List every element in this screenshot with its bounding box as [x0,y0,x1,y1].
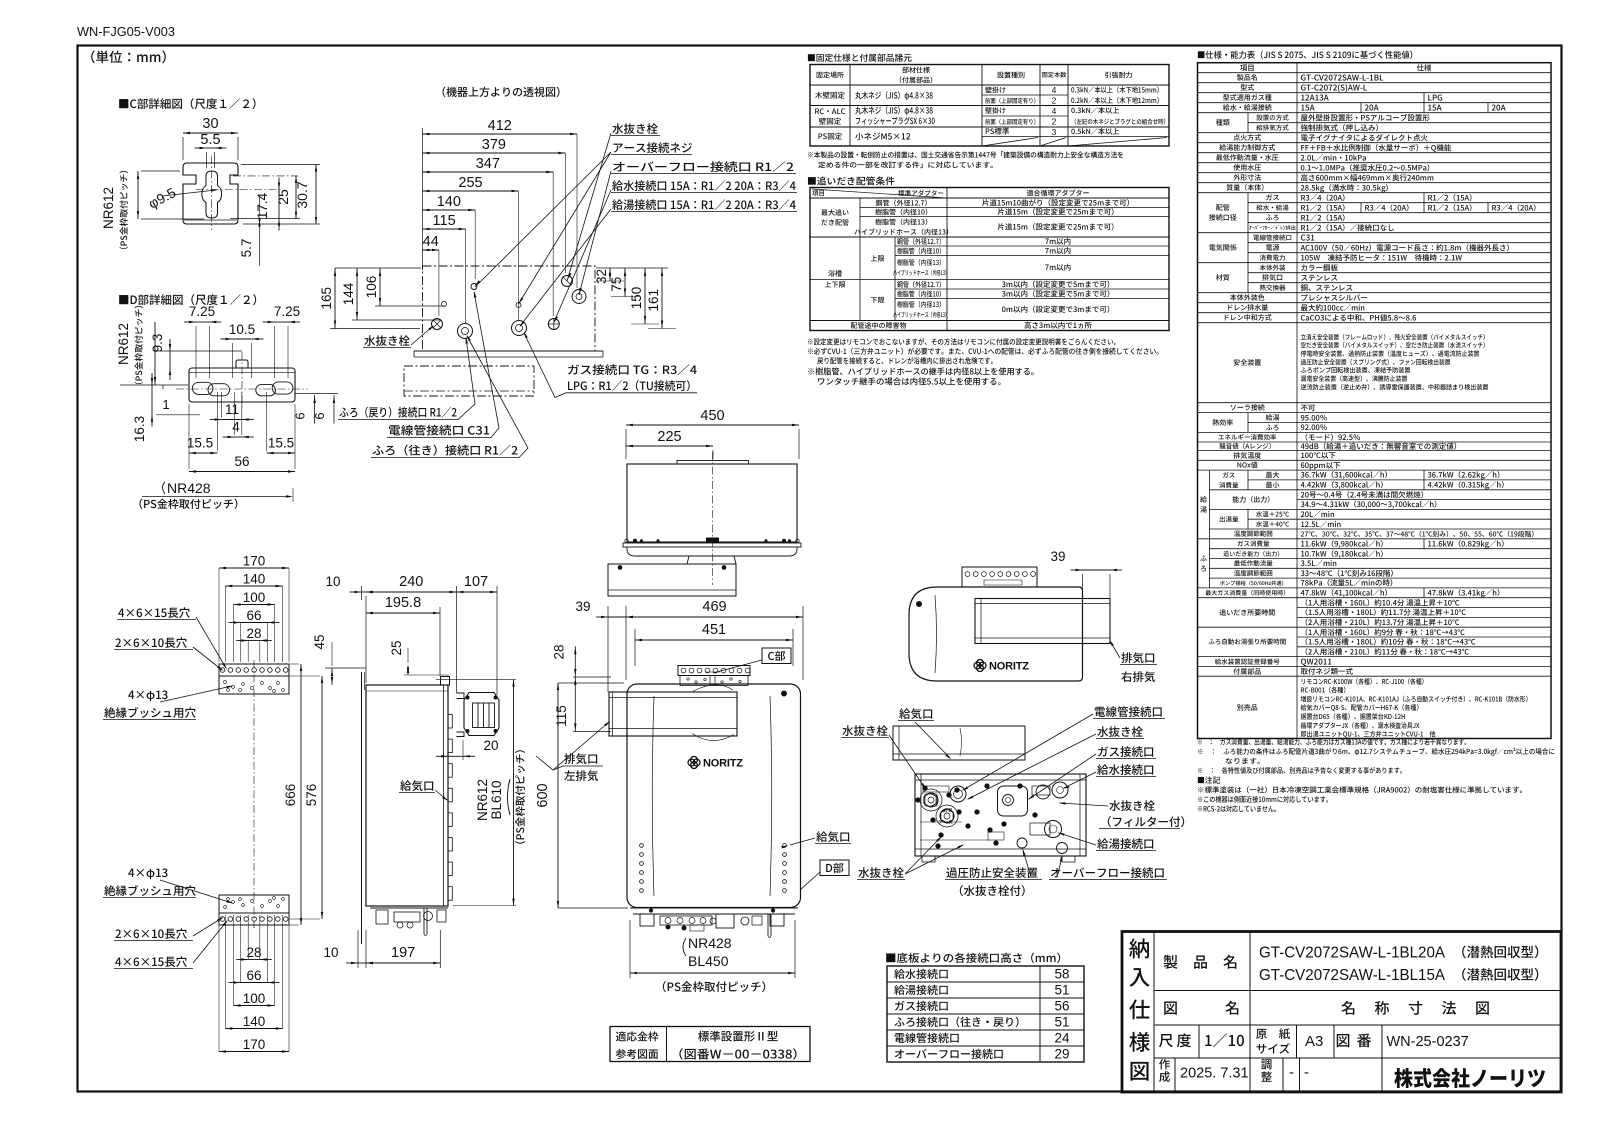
svg-text:水抜き栓: 水抜き栓 [842,723,888,739]
svg-text:オーバーフロー接続口: オーバーフロー接続口 [894,1046,1004,1062]
svg-text:小ネジM5×12: 小ネジM5×12 [855,131,911,143]
svg-text:197: 197 [391,945,415,961]
svg-text:195.8: 195.8 [385,595,421,611]
svg-text:0.3kN／本以上（木下地15mm）: 0.3kN／本以上（木下地15mm） [1071,86,1163,96]
svg-text:給水・給湯: 給水・給湯 [1256,202,1289,212]
svg-text:製品名: 製品名 [1237,73,1258,83]
svg-text:15.5: 15.5 [268,436,294,451]
svg-text:点火方式: 点火方式 [1233,133,1261,143]
svg-text:型式: 型式 [1240,83,1254,93]
svg-text:フィッシャープラグSX 6×30: フィッシャープラグSX 6×30 [855,115,935,127]
svg-text:170: 170 [243,1037,266,1052]
svg-text:■C部詳細図（尺度１／２）: ■C部詳細図（尺度１／２） [118,96,263,112]
svg-text:給湯能力制御方式: 給湯能力制御方式 [1219,143,1275,153]
svg-text:（単位：mm）: （単位：mm） [82,46,175,66]
svg-text:6: 6 [293,412,308,419]
svg-text:3: 3 [1052,127,1057,137]
svg-text:NR612: NR612 [116,323,131,365]
svg-text:なります。: なります。 [1225,757,1265,767]
svg-text:オーバーフロー接続口 R1／2: オーバーフロー接続口 R1／2 [612,159,794,175]
svg-text:参考図面: 参考図面 [616,1046,659,1062]
svg-text:58: 58 [1054,967,1069,982]
svg-text:だき配管: だき配管 [821,218,849,228]
svg-text:配管: 配管 [1216,203,1230,213]
svg-text:図: 図 [1336,1030,1351,1051]
svg-text:7.25: 7.25 [274,304,300,319]
svg-text:25: 25 [275,189,291,205]
svg-text:25: 25 [389,640,404,655]
svg-text:鋼管（外径12.7）: 鋼管（外径12.7） [897,280,945,290]
svg-text:引張耐力: 引張耐力 [1105,70,1133,80]
svg-text:2: 2 [1052,95,1057,105]
svg-text:水抜き栓: 水抜き栓 [612,121,658,137]
svg-text:給水装置認証登録番号: 給水装置認証登録番号 [1215,656,1281,666]
svg-text:給気口: 給気口 [400,778,435,794]
svg-text:オーバーフロー接続口: オーバーフロー接続口 [1050,865,1165,881]
svg-text:4×φ13: 4×φ13 [128,865,168,881]
svg-text:給湯接続口 15A：R1／2 20A：R3／4: 給湯接続口 15A：R1／2 20A：R3／4 [612,197,796,213]
svg-text:使用水圧: 使用水圧 [1233,163,1261,173]
svg-text:水温＋40℃: 水温＋40℃ [1256,518,1290,528]
svg-text:高さ3m以内で1ヵ所: 高さ3m以内で1ヵ所 [1024,320,1093,331]
svg-text:固定本数: 固定本数 [1042,70,1068,79]
svg-text:15.5: 15.5 [187,436,213,451]
svg-text:ポンプ揚程（50/60Hz共通）: ポンプ揚程（50/60Hz共通） [1220,580,1287,587]
svg-text:絶縁ブッシュ用穴: 絶縁ブッシュ用穴 [104,883,196,899]
svg-text:4×φ13: 4×φ13 [128,687,168,703]
svg-text:A3: A3 [1305,1033,1323,1050]
svg-text:図: 図 [1475,998,1490,1019]
svg-text:外形寸法: 外形寸法 [1233,173,1261,183]
svg-text:30.7: 30.7 [294,181,310,208]
svg-text:（PS金枠取付ピッチ）: （PS金枠取付ピッチ） [513,743,528,851]
svg-text:度: 度 [1177,1030,1192,1051]
svg-text:39: 39 [1050,549,1065,564]
svg-text:ガス接続口 TG：R3／4: ガス接続口 TG：R3／4 [567,362,697,378]
svg-text:28: 28 [552,644,567,659]
svg-text:NR612: NR612 [475,779,490,821]
svg-text:225: 225 [657,429,681,445]
svg-text:電線管接続口: 電線管接続口 [1094,704,1163,720]
svg-text:4×6×15長穴: 4×6×15長穴 [115,954,188,970]
svg-text:GT-CV2072SAW-L-1BL20A: GT-CV2072SAW-L-1BL20A [1259,945,1445,962]
svg-text:100: 100 [243,991,266,1006]
svg-text:ｵｰﾊﾞｰﾌﾛｰ／ﾄﾞﾚﾝ排出: ｵｰﾊﾞｰﾌﾛｰ／ﾄﾞﾚﾝ排出 [1249,225,1296,232]
svg-text:※本製品の設置・転倒防止の措置は、国土交通省告示第1447号: ※本製品の設置・転倒防止の措置は、国土交通省告示第1447号「建築設備の構造耐力… [807,151,1124,161]
svg-text:安全装置: 安全装置 [1233,358,1261,368]
svg-text:30: 30 [202,116,218,132]
svg-text:標準アダプター: 標準アダプター [898,188,944,198]
svg-text:消費量: 消費量 [1219,479,1239,489]
svg-text:給水接続口 15A：R1／2 20A：R3／4: 給水接続口 15A：R1／2 20A：R3／4 [612,178,796,194]
svg-text:-: - [1304,1064,1309,1081]
svg-text:C部: C部 [767,648,785,664]
svg-text:7m以内: 7m以内 [1045,262,1071,273]
svg-text:最大ガス消費量（同時使用時）: 最大ガス消費量（同時使用時） [1205,588,1289,597]
svg-text:ハイブリッドホース（内径13）: ハイブリッドホース（内径13） [893,310,949,319]
svg-text:BL450: BL450 [688,953,729,969]
svg-text:150: 150 [629,287,644,310]
svg-text:NR428: NR428 [688,935,732,951]
svg-text:666: 666 [283,784,298,807]
svg-text:107: 107 [464,574,488,590]
svg-text:450: 450 [700,408,724,424]
svg-text:壁掛け: 壁掛け [985,106,1006,116]
svg-text:28: 28 [246,945,261,960]
svg-text:4: 4 [1052,106,1057,116]
svg-text:24: 24 [1054,1031,1070,1046]
svg-text:ガス: ガス [943,807,953,814]
svg-text:165: 165 [319,287,334,310]
svg-text:樹脂管（内径13）: 樹脂管（内径13） [897,300,945,310]
svg-text:（左記の木ネジとプラグとの組合せ時）: （左記の木ネジとプラグとの組合せ時） [1071,117,1169,126]
svg-text:4: 4 [232,420,240,435]
svg-text:絶縁ブッシュ用穴: 絶縁ブッシュ用穴 [104,705,196,721]
svg-text:115: 115 [433,213,456,229]
svg-text:給気口: 給気口 [816,829,851,845]
svg-text:51: 51 [1054,983,1069,998]
svg-text:出湯量: 出湯量 [1219,514,1239,524]
svg-text:■注記: ■注記 [1197,775,1221,786]
svg-text:※ ： ふろ能力の条件はふろ配管片道3曲がり6m、φ12.7: ※ ： ふろ能力の条件はふろ配管片道3曲がり6m、φ12.7システムチューブ、給… [1197,747,1555,757]
svg-text:（潜熱回収型）: （潜熱回収型） [1453,964,1548,984]
svg-text:ふろ接続口（往き・戻り）: ふろ接続口（往き・戻り） [894,1014,1026,1030]
svg-text:電線管接続口 C31: 電線管接続口 C31 [388,423,490,439]
svg-text:ハイブリッドホース（内径13）: ハイブリッドホース（内径13） [893,268,949,277]
svg-text:66: 66 [246,608,261,623]
svg-text:最低作動流量・水圧: 最低作動流量・水圧 [1216,153,1279,163]
svg-text:φ9.5: φ9.5 [146,184,179,212]
svg-text:-: - [1289,1064,1294,1081]
svg-text:左排気: 左排気 [564,768,599,784]
svg-text:騒音値（Aレンジ）: 騒音値（Aレンジ） [1219,441,1275,451]
svg-text:WN-FJG05-V003: WN-FJG05-V003 [77,24,175,39]
svg-text:（付属部品）: （付属部品） [895,75,937,85]
svg-text:140: 140 [243,1014,266,1029]
svg-text:湯: 湯 [1200,505,1207,515]
svg-text:56: 56 [1054,999,1069,1014]
svg-text:（PS金枠取付ピッチ）: （PS金枠取付ピッチ） [132,496,245,512]
svg-text:600: 600 [535,783,551,807]
svg-text:熱効率: 熱効率 [1212,418,1233,428]
svg-text:BL610: BL610 [489,780,504,819]
svg-text:成: 成 [1159,1069,1171,1085]
svg-text:ドレン排水量: ドレン排水量 [1226,303,1268,313]
svg-text:NORITZ: NORITZ [989,661,1029,673]
svg-text:温度調節範囲: 温度調節範囲 [1234,528,1273,538]
svg-text:電線管接続口: 電線管接続口 [894,1030,960,1046]
svg-text:図: 図 [1163,998,1178,1019]
svg-text:ふろ自動お湯張り所要時間: ふろ自動お湯張り所要時間 [1208,636,1286,646]
svg-text:GT-CV2072SAW-L-1BL15A: GT-CV2072SAW-L-1BL15A [1259,967,1445,984]
svg-text:給湯接続口: 給湯接続口 [1097,836,1155,852]
svg-text:電気関係: 電気関係 [1209,243,1237,253]
svg-text:379: 379 [482,137,506,153]
svg-text:（PS金枠取付ピッチ）: （PS金枠取付ピッチ） [132,300,145,390]
svg-text:項目: 項目 [812,188,825,198]
svg-text:5.5: 5.5 [200,132,220,148]
svg-text:ガス: ガス [1222,469,1235,479]
svg-text:4×6×15長穴: 4×6×15長穴 [118,605,191,621]
svg-text:質量（本体）: 質量（本体） [1226,183,1268,193]
svg-text:CaCO3による中和、PH値5.8～8.6: CaCO3による中和、PH値5.8～8.6 [1301,312,1417,323]
svg-text:（潜熱回収型）: （潜熱回収型） [1453,941,1548,961]
svg-text:170: 170 [243,554,266,569]
svg-text:壁固定: 壁固定 [819,116,842,127]
svg-text:■底板よりの各接続口高さ（mm）: ■底板よりの各接続口高さ（mm） [885,950,1068,966]
svg-text:丸木ネジ（JIS）φ4.8×38: 丸木ネジ（JIS）φ4.8×38 [855,89,933,101]
svg-text:ワンタッチ継手の場合は内径5.5以上を使用する。: ワンタッチ継手の場合は内径5.5以上を使用する。 [817,376,1006,388]
svg-text:設置種別: 設置種別 [997,70,1025,80]
svg-text:0.2kN／本以上（木下地12mm）: 0.2kN／本以上（木下地12mm） [1071,96,1163,106]
svg-text:66: 66 [246,968,261,983]
svg-text:排気温度: 排気温度 [1233,451,1261,461]
svg-text:ふろ（戻り）接続口 R1／2: ふろ（戻り）接続口 R1／2 [339,405,457,421]
svg-text:469: 469 [702,599,726,615]
svg-text:R1／2（15A）: R1／2（15A） [1428,202,1477,213]
svg-text:140: 140 [437,194,461,210]
svg-text:木壁固定: 木壁固定 [815,90,845,101]
svg-text:28: 28 [246,626,261,641]
svg-text:最小: 最小 [1266,480,1280,490]
svg-text:NR428: NR428 [167,480,211,496]
svg-text:16.3: 16.3 [132,416,147,442]
svg-text:称: 称 [1375,998,1390,1019]
svg-text:樹脂管（内径13）: 樹脂管（内径13） [897,258,945,268]
svg-text:0.5kN／本以上: 0.5kN／本以上 [1071,127,1120,137]
svg-text:逆流防止装置（逆止め弁）、誘導雷保護装置、中和器詰まり検出装: 逆流防止装置（逆止め弁）、誘導雷保護装置、中和器詰まり検出装置 [1301,381,1489,391]
svg-text:■固定仕様と付属部品諸元: ■固定仕様と付属部品諸元 [807,51,912,64]
svg-text:0m以内（設定変更で3mまで可）: 0m以内（設定変更で3mまで可） [1002,304,1115,315]
svg-text:※この機器は側面近接10mmに対応しています。: ※この機器は側面近接10mmに対応しています。 [1197,795,1332,805]
svg-text:27℃、30℃、32℃、35℃、37～48℃（1℃刻み）、5: 27℃、30℃、32℃、35℃、37～48℃（1℃刻み）、50、55、60℃（1… [1301,528,1539,538]
svg-text:412: 412 [488,118,512,134]
svg-text:451: 451 [702,622,726,638]
svg-text:前面（上部固定有り）: 前面（上部固定有り） [985,117,1039,126]
svg-text:上限: 上限 [871,254,885,264]
svg-text:10.5: 10.5 [229,322,255,337]
svg-text:7m以内: 7m以内 [1045,245,1071,256]
svg-text:1: 1 [162,397,169,412]
svg-text:水抜き栓: 水抜き栓 [1109,798,1155,814]
svg-text:※RCS-2は対応していません。: ※RCS-2は対応していません。 [1197,805,1280,815]
svg-text:設置の方式: 設置の方式 [1256,112,1289,122]
svg-text:ドレン中和方式: ドレン中和方式 [1223,313,1272,323]
svg-text:本体外装色: 本体外装色 [1230,293,1265,303]
svg-text:標準設置形Ⅱ型: 標準設置形Ⅱ型 [698,1029,779,1045]
svg-text:前面（上部固定有り）: 前面（上部固定有り） [985,96,1039,105]
svg-text:（PS金枠取付ピッチ）: （PS金枠取付ピッチ） [655,979,773,995]
svg-text:アース: アース [938,819,953,826]
svg-text:115: 115 [554,705,569,727]
svg-text:図: 図 [1129,1055,1151,1086]
svg-text:2025. 7.31: 2025. 7.31 [1180,1066,1249,1082]
svg-text:11: 11 [225,402,239,417]
svg-text:（PS金枠取付ピッチ）: （PS金枠取付ピッチ） [117,165,130,255]
svg-text:■仕様・能力表（JIS S 2075、JIS S 2109に: ■仕様・能力表（JIS S 2075、JIS S 2109に基づく性能値） [1197,49,1418,61]
svg-text:WN-25-0237: WN-25-0237 [1387,1034,1469,1050]
svg-text:本体外装: 本体外装 [1260,262,1287,272]
svg-text:44: 44 [423,234,439,250]
svg-text:347: 347 [476,156,500,172]
svg-text:温度調節範囲: 温度調節範囲 [1234,568,1273,578]
svg-text:部材仕様: 部材仕様 [902,65,930,75]
svg-text:※標準塗装は（一社）日本冷凍空調工業会標準規格（JRA900: ※標準塗装は（一社）日本冷凍空調工業会標準規格（JRA9002）の耐塩害仕様に準… [1197,786,1527,796]
svg-text:追いだき所要時間: 追いだき所要時間 [1219,608,1275,618]
svg-text:別売品: 別売品 [1237,703,1258,713]
svg-text:2×6×10長穴: 2×6×10長穴 [115,635,188,651]
svg-text:最大追い: 最大追い [821,208,849,218]
svg-text:仕様: 仕様 [1417,62,1433,73]
svg-text:給水接続口: 給水接続口 [894,966,949,982]
svg-text:161: 161 [646,289,661,312]
svg-text:定める件の一部を改訂する件」に対応しています。: 定める件の一部を改訂する件」に対応しています。 [818,161,998,171]
svg-text:5.7: 5.7 [239,239,254,258]
svg-text:ふろ（往き）接続口 R1／2: ふろ（往き）接続口 R1／2 [372,443,518,459]
svg-text:R3／4（20A）: R3／4（20A） [1492,202,1541,213]
svg-text:サイズ: サイズ [1256,1041,1291,1057]
svg-text:片道15m（設定変更で25mまで可）: 片道15m（設定変更で25mまで可） [997,221,1118,232]
svg-text:水抜き栓: 水抜き栓 [364,333,410,349]
svg-text:給湯: 給湯 [1266,413,1280,423]
svg-text:6: 6 [312,412,327,419]
svg-text:4.42kW（0.315kg／h）: 4.42kW（0.315kg／h） [1428,480,1509,491]
svg-text:11.6kW（0.829kg／h）: 11.6kW（0.829kg／h） [1428,538,1509,549]
svg-text:排気口: 排気口 [1121,650,1156,666]
svg-text:配管途中の障害物: 配管途中の障害物 [851,321,907,331]
svg-text:29: 29 [1054,1047,1069,1062]
svg-text:10: 10 [325,574,340,589]
svg-text:過圧防止安全装置: 過圧防止安全装置 [946,865,1038,881]
svg-text:0.3kN／本以上: 0.3kN／本以上 [1071,106,1120,116]
svg-text:ハイブリッドホース（内径13）: ハイブリッドホース（内径13） [854,227,953,237]
svg-text:仕: 仕 [1129,994,1151,1025]
svg-text:給水接続口: 給水接続口 [1097,762,1155,778]
svg-text:ガス接続口: ガス接続口 [1097,744,1155,760]
svg-text:材質: 材質 [1216,273,1230,283]
svg-text:追いだき能力（出力）: 追いだき能力（出力） [1223,549,1283,558]
svg-text:入: 入 [1129,961,1151,992]
svg-text:NOx値: NOx値 [1237,461,1258,471]
svg-text:整: 整 [1261,1069,1273,1085]
svg-text:樹脂管（内径10）: 樹脂管（内径10） [897,289,945,299]
svg-text:樹脂管（内径10）: 樹脂管（内径10） [875,208,932,218]
svg-text:法: 法 [1442,998,1457,1019]
svg-text:106: 106 [364,276,379,299]
svg-text:樹脂管（内径10）: 樹脂管（内径10） [897,246,945,256]
svg-text:20: 20 [483,738,498,753]
svg-text:熱交換器: 熱交換器 [1260,282,1287,292]
svg-text:壁掛け: 壁掛け [985,86,1006,96]
svg-text:電線管接続口: 電線管接続口 [1253,232,1292,242]
svg-text:PS固定: PS固定 [818,131,843,142]
svg-text:1／10: 1／10 [1204,1030,1245,1051]
svg-text:240: 240 [399,574,423,590]
svg-text:144: 144 [341,282,356,305]
svg-text:56: 56 [234,454,249,469]
svg-text:D部: D部 [825,860,844,876]
svg-text:ろ: ろ [1200,564,1207,574]
svg-text:最低作動流量: 最低作動流量 [1234,558,1274,568]
svg-text:45: 45 [312,634,327,649]
svg-text:アース接続ネジ: アース接続ネジ [612,140,693,156]
svg-text:（水抜き栓付）: （水抜き栓付） [952,883,1033,899]
svg-text:名: 名 [1341,998,1356,1019]
svg-text:給湯接続口: 給湯接続口 [894,982,949,998]
svg-text:種類: 種類 [1216,118,1230,128]
svg-text:尺: 尺 [1159,1030,1174,1051]
svg-text:51: 51 [1054,1015,1069,1030]
svg-text:上下限: 上下限 [825,280,846,290]
svg-text:75: 75 [609,277,624,292]
svg-text:片道15m（設定変更で25mまで可）: 片道15m（設定変更で25mまで可） [997,207,1118,218]
svg-text:最大: 最大 [1266,471,1280,481]
svg-text:ふ: ふ [1200,554,1207,564]
svg-text:100: 100 [243,590,266,605]
svg-text:原 紙: 原 紙 [1256,1026,1291,1042]
svg-text:水抜き栓: 水抜き栓 [858,865,904,881]
svg-text:樹脂管（内径13）: 樹脂管（内径13） [875,217,932,227]
svg-text:（図番W－00－0338）: （図番W－00－0338） [671,1046,806,1063]
svg-text:固定場所: 固定場所 [816,70,844,80]
svg-text:名: 名 [1225,998,1240,1019]
svg-text:給: 給 [1200,495,1207,505]
svg-text:3m以内（設定変更で5mまで可）: 3m以内（設定変更で5mまで可） [1002,288,1115,299]
svg-text:R3／4（20A）: R3／4（20A） [1365,202,1414,213]
svg-text:株式会社ノーリツ: 株式会社ノーリツ [1394,1063,1546,1093]
svg-text:ガス消費量: ガス消費量 [1237,538,1270,548]
svg-text:項目: 項目 [1240,62,1255,73]
svg-text:（フィルター付）: （フィルター付） [1100,814,1192,830]
svg-text:20A: 20A [1492,103,1506,114]
svg-text:製 品 名: 製 品 名 [1163,952,1238,973]
svg-text:右排気: 右排気 [1121,669,1156,685]
svg-text:ふろ: ふろ [1266,213,1280,223]
svg-text:納: 納 [1129,933,1151,964]
svg-text:※ ： ガス消費量、出湯量、給湯能力、ふろ能力はガス種13A: ※ ： ガス消費量、出湯量、給湯能力、ふろ能力はガス種13Aの値です。ガス種によ… [1197,738,1470,748]
svg-text:2: 2 [1052,117,1057,127]
svg-text:140: 140 [243,572,266,587]
svg-text:水抜き栓: 水抜き栓 [1097,724,1143,740]
svg-text:2×6×10長穴: 2×6×10長穴 [115,926,188,942]
svg-text:水温＋25℃: 水温＋25℃ [1256,509,1290,519]
svg-text:接続口径: 接続口径 [1209,213,1237,223]
svg-text:寸: 寸 [1408,998,1423,1019]
svg-text:■追いだき配管条件: ■追いだき配管条件 [807,174,895,188]
svg-text:9.3: 9.3 [150,334,165,353]
svg-text:4: 4 [1052,85,1057,95]
svg-text:39: 39 [575,599,590,614]
svg-text:浴槽: 浴槽 [828,269,842,279]
svg-text:ソーラ接続: ソーラ接続 [1230,403,1265,413]
svg-text:255: 255 [458,175,482,191]
svg-text:給排気方式: 給排気方式 [1256,122,1289,132]
svg-text:型式適用ガス種: 型式適用ガス種 [1223,93,1272,103]
svg-text:付属部品: 付属部品 [1233,667,1261,677]
svg-text:※ ： 各特性値及び付属部品、別売品は予告なく変更する事があ: ※ ： 各特性値及び付属部品、別売品は予告なく変更する事があります。 [1197,766,1406,776]
svg-text:適応金枠: 適応金枠 [616,1029,659,1045]
svg-text:LPG：R1／2（TU接続可）: LPG：R1／2（TU接続可） [567,378,697,394]
svg-text:PS標準: PS標準 [985,126,1010,137]
svg-text:様: 様 [1129,1026,1151,1057]
svg-text:排気口: 排気口 [564,751,599,767]
svg-text:17.4: 17.4 [255,192,270,219]
svg-text:7.25: 7.25 [189,304,215,319]
svg-text:NORITZ: NORITZ [703,758,743,770]
svg-text:能力（出力）: 能力（出力） [1232,495,1274,505]
svg-text:（機器上方よりの透視図）: （機器上方よりの透視図） [435,84,567,100]
svg-text:給気口: 給気口 [899,706,934,722]
